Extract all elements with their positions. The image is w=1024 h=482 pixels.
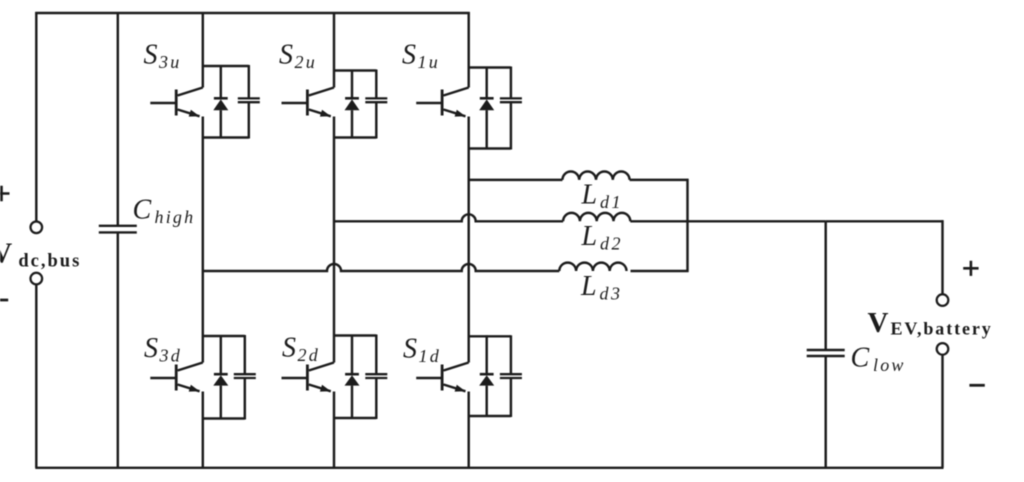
wire cell S3u bottom bbox=[203, 136, 249, 138]
svg-text:3u: 3u bbox=[158, 52, 181, 72]
transistor S2u bbox=[282, 102, 308, 104]
wire phase leg 3 middle segment bbox=[202, 117, 204, 363]
svg-text:L: L bbox=[580, 271, 597, 302]
snubber capacitor of S1d bbox=[510, 335, 512, 374]
svg-text:L: L bbox=[581, 180, 598, 211]
svg-text:2d: 2d bbox=[298, 345, 320, 365]
snubber capacitor of S3d bbox=[244, 335, 246, 374]
terminal + of V_EV,battery bbox=[937, 294, 949, 306]
wire battery upper lead bbox=[941, 220, 943, 294]
svg-text:1d: 1d bbox=[419, 346, 441, 366]
label + (V_EV,battery) bbox=[963, 261, 978, 276]
wire phase-3 midpoint to L_d3 bbox=[203, 264, 560, 271]
snubber capacitor of S2d bbox=[375, 335, 377, 375]
transistor S1u bbox=[416, 102, 442, 104]
label + (V_dc,bus) bbox=[0, 186, 10, 201]
wire battery lower lead bbox=[941, 354, 943, 467]
inductor L_d1 bbox=[562, 172, 629, 180]
diode of S3d bbox=[220, 335, 222, 374]
diode of S2u bbox=[351, 70, 353, 99]
svg-text:C: C bbox=[851, 343, 870, 374]
wire C_high upper lead bbox=[117, 12, 119, 226]
svg-text:S: S bbox=[402, 40, 416, 71]
wire phase leg 1 middle segment bbox=[467, 117, 469, 363]
diode of S2d bbox=[351, 335, 353, 375]
wire L_d1 to common node bbox=[630, 179, 689, 181]
svg-text:L: L bbox=[581, 221, 598, 252]
wire phase-1 midpoint to L_d1 bbox=[469, 179, 563, 181]
wire L_d2 to output node bbox=[630, 220, 825, 222]
label - (V_EV,battery) bbox=[969, 384, 984, 387]
svg-text:3d: 3d bbox=[159, 346, 182, 366]
wire cell S3d top bbox=[203, 335, 245, 337]
wire L_d3 to common node bbox=[631, 270, 689, 272]
wire C_low lower lead bbox=[824, 356, 826, 468]
wire phase leg 2 middle segment bbox=[333, 117, 335, 363]
svg-text:2u: 2u bbox=[295, 52, 317, 72]
svg-text:V: V bbox=[868, 307, 889, 339]
svg-text:S: S bbox=[144, 40, 158, 71]
inductor L_d2 bbox=[563, 213, 630, 221]
wire phase leg 3 upper segment bbox=[202, 12, 204, 88]
wire C_low upper lead bbox=[824, 221, 826, 350]
svg-text:S: S bbox=[279, 40, 293, 71]
svg-text:S: S bbox=[282, 333, 296, 364]
capacitor C_low bbox=[807, 350, 845, 356]
diode of S1d bbox=[485, 335, 487, 374]
wire cell S2d top bbox=[334, 334, 376, 336]
snubber capacitor of S1u bbox=[510, 67, 512, 99]
svg-text:low: low bbox=[873, 355, 906, 375]
wire cell S1d top bbox=[469, 335, 511, 337]
wire phase leg 1 upper segment bbox=[467, 12, 469, 88]
label - (V_dc,bus) bbox=[0, 299, 8, 302]
wire phase leg 3 lower segment bbox=[202, 392, 204, 468]
wire cell S1d bottom bbox=[469, 415, 511, 417]
snubber capacitor of S3u bbox=[248, 65, 250, 98]
terminal - of V_dc,bus bbox=[31, 273, 43, 285]
wire V_dc,bus upper lead bbox=[35, 12, 37, 222]
wire cell S3d bottom bbox=[203, 417, 245, 419]
snubber capacitor of S2u bbox=[375, 70, 377, 99]
terminal - of V_EV,battery bbox=[937, 343, 949, 355]
svg-text:S: S bbox=[144, 333, 158, 364]
transistor S3u bbox=[150, 102, 176, 104]
wire top dc-bus rail bbox=[35, 12, 469, 14]
wire bottom return rail bbox=[35, 467, 943, 469]
terminal + of V_dc,bus bbox=[31, 222, 43, 234]
wire C_high lower lead bbox=[117, 232, 119, 467]
diode of S3u bbox=[220, 65, 222, 98]
wire cell S1u bottom bbox=[469, 147, 511, 149]
svg-text:d3: d3 bbox=[600, 284, 623, 304]
wire cell S2d bottom bbox=[334, 417, 376, 419]
wire phase leg 2 upper segment bbox=[333, 12, 335, 88]
wire cell S2u top bbox=[334, 69, 376, 71]
diode of S1u bbox=[485, 67, 487, 99]
capacitor C_high bbox=[99, 226, 137, 233]
svg-text:V: V bbox=[0, 238, 12, 270]
transistor S1d bbox=[416, 377, 442, 379]
wire V_dc,bus lower lead bbox=[35, 284, 37, 468]
svg-text:d2: d2 bbox=[600, 234, 623, 254]
svg-text:S: S bbox=[403, 334, 417, 365]
svg-text:C: C bbox=[133, 195, 152, 226]
wire common output node bbox=[686, 179, 688, 272]
wire phase leg 2 lower segment bbox=[333, 392, 335, 468]
inductor L_d3 bbox=[559, 263, 626, 271]
wire cell S3u top bbox=[203, 65, 249, 67]
svg-text:EV,battery: EV,battery bbox=[891, 319, 993, 339]
transistor S3d bbox=[150, 377, 176, 379]
wire cell S2u bottom bbox=[334, 136, 376, 138]
wire phase leg 1 lower segment bbox=[467, 392, 469, 468]
transistor S2d bbox=[282, 377, 308, 379]
svg-text:high: high bbox=[155, 207, 196, 227]
svg-text:dc,bus: dc,bus bbox=[18, 252, 81, 272]
svg-text:d1: d1 bbox=[600, 192, 623, 212]
wire phase-2 midpoint to L_d2 bbox=[334, 214, 563, 221]
wire output to battery bbox=[826, 220, 944, 222]
svg-text:1u: 1u bbox=[418, 52, 440, 72]
wire cell S1u top bbox=[469, 66, 511, 68]
